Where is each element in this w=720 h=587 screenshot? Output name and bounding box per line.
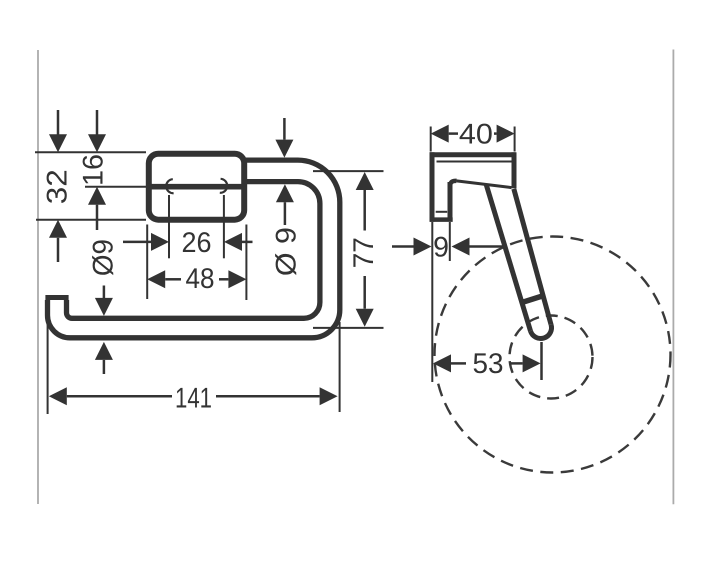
dim 40 extension line left [430,127,432,152]
dim 26 arrow left [151,233,169,251]
wire bar outer edge [48,160,340,338]
side plate bottom edge [430,217,453,222]
frame line right [672,50,674,505]
dim 53 arrow right [523,354,541,372]
arm corner [450,181,457,187]
dim 77 arrow up [356,172,374,190]
small dashed circle (roll core) [510,316,593,399]
svg-text:40: 40 [459,118,493,150]
break arc left [166,179,173,193]
dim Ø9 left stem bottom [103,360,106,374]
dim 40 line left [449,132,458,135]
dim Ø9 right arrow up [276,184,294,202]
dim 48 extension line left [146,225,148,300]
dim 77 extension line top [313,170,384,172]
dim 53 arrow left [433,354,451,372]
roll center tick [540,342,543,380]
arrow up x58 (32) [49,220,67,238]
dim 141 extension line right [339,322,341,412]
dim Ø9 right arrow down [275,140,293,158]
arm end cap [531,325,552,339]
svg-text:32: 32 [42,169,74,204]
dim Ø9 left arrow up [95,342,113,360]
svg-text:9: 9 [433,232,449,264]
arm left slant edge [486,185,530,332]
arm joint line [524,295,545,302]
dim 77 arrow down [356,309,374,327]
svg-text:77: 77 [348,237,380,268]
dim 9 arrow right [452,238,470,256]
dim 48 arrow left [147,270,165,288]
dim 26 left tail [123,241,152,244]
dim 40 line right [494,132,497,135]
arrow down x97 [96,110,99,135]
dim 26 right tail [242,241,253,244]
dim 77 stem bottom [363,276,366,309]
dim 48 arrow right [228,270,246,288]
svg-text:Ø 9: Ø 9 [270,227,302,276]
dim 26 arrow right [224,233,242,251]
dim 9 extension line right [449,222,451,261]
frame line left [37,50,39,504]
dim 26 extension line right [223,195,225,258]
plate inner line [147,184,247,190]
side plate top bar [430,152,516,157]
dim: top extension line y=152.3 [35,151,146,153]
side plate left edge [430,152,435,222]
dim 141 line left [67,395,172,398]
dim 141 extension line left [47,320,49,414]
arm top edge [457,181,512,188]
dim 141 arrow right [320,387,338,405]
dim 9 tail left [392,245,414,248]
dim 53 line left [451,362,466,365]
dim 53 line right [510,362,523,365]
dim 48 extension line right [245,225,247,301]
dim 77 stem top [363,190,366,231]
arrow up x97 (16) [88,187,106,205]
svg-text:53: 53 [473,348,504,380]
break arc right [220,179,227,193]
arm right slant edge [514,189,551,325]
dim 26 extension line left [168,195,170,258]
dim 141 arrow left [49,387,67,405]
dim 9 extension line left (wall line) [431,222,433,382]
side plate lip line top [437,161,512,163]
svg-text:16: 16 [77,154,109,186]
dim: 16 bottom extension [85,186,146,188]
dim 48 line [165,278,181,281]
wire bar inner edge [67,182,320,319]
dim Ø9 right stem bottom [284,202,287,225]
side plate right edge [512,152,517,188]
side plate foot lip [436,211,448,213]
dim 9 tail right [470,245,505,248]
dim 141 line right [216,395,320,398]
dim 77 extension line bottom [313,327,384,329]
dim 40 extension line right [514,127,516,152]
dim: 32 bottom extension [36,219,146,221]
wall plate front [149,154,244,220]
dim 40 arrow right [497,125,515,143]
svg-text:141: 141 [175,382,212,414]
arrow down x58 [57,110,60,135]
svg-text:26: 26 [182,227,212,259]
dim 48 line right [219,278,228,281]
dim 40 arrow left [431,125,449,143]
side plate front face [448,182,453,220]
big dashed circle (paper roll) [435,237,671,473]
dim Ø9 left arrow down [95,298,113,316]
hook end cap [45,295,68,300]
dim 9 arrow left [414,238,432,256]
svg-text:48: 48 [186,263,215,295]
svg-text:Ø9: Ø9 [87,239,119,276]
dim Ø9 right stem top [283,118,286,140]
dim Ø9 left stem top [103,286,106,299]
